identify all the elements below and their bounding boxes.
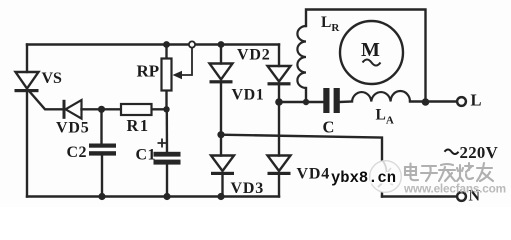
- svg-text:VD5: VD5: [56, 120, 90, 137]
- wire motor frame: [306, 10, 426, 103]
- terminal N: [457, 192, 466, 201]
- wire C2 top lead: [100, 109, 102, 143]
- svg-text:VD3: VD3: [231, 180, 265, 197]
- thyristor VS: [15, 72, 39, 92]
- watermark char zi: [421, 166, 437, 181]
- svg-text:C: C: [323, 118, 335, 137]
- potentiometer RP: [162, 48, 193, 91]
- label motor tilde: [363, 60, 381, 66]
- capacitor C2: [89, 144, 116, 156]
- wire VD5 to node A: [82, 108, 122, 110]
- watermark char shao: [457, 163, 473, 181]
- svg-text:LA: LA: [376, 107, 394, 127]
- diode VD2: [268, 66, 291, 85]
- svg-text:VS: VS: [42, 70, 63, 87]
- wire AC node to N side: [221, 135, 382, 197]
- wire top rail: [27, 43, 279, 45]
- svg-text:RP: RP: [137, 62, 160, 81]
- wire left rail upper: [26, 45, 28, 73]
- wire bottom rail: [27, 195, 279, 197]
- svg-text:www.elecfans.com: www.elecfans.com: [403, 181, 506, 195]
- wire RP bottom lead: [165, 91, 167, 110]
- wire bridge right column lower: [278, 175, 280, 197]
- svg-text:ybx8.cn: ybx8.cn: [331, 169, 396, 187]
- wire C1 top lead: [166, 109, 169, 151]
- wire RP top lead: [165, 45, 167, 59]
- wire bridge left column upper: [220, 45, 222, 64]
- svg-text:VD4: VD4: [297, 166, 331, 183]
- diode VD3: [211, 156, 234, 176]
- node wiper tap circle: [189, 41, 195, 47]
- wire bridge left column lower: [221, 175, 223, 197]
- capacitor C1: [154, 139, 181, 165]
- wire AC node to C: [279, 101, 323, 103]
- wire bridge right column middle: [278, 85, 280, 156]
- wire bridge right column upper: [278, 45, 280, 67]
- watermark char you: [477, 163, 493, 181]
- wire C2 bottom lead: [101, 156, 103, 197]
- terminal L: [457, 97, 466, 106]
- wire R1 right lead: [152, 108, 167, 110]
- svg-text:C2: C2: [67, 144, 88, 161]
- svg-text:220V: 220V: [460, 143, 499, 162]
- wire gate of VS: [30, 92, 64, 110]
- wire N lead: [382, 195, 458, 197]
- svg-text:VD2: VD2: [237, 47, 271, 64]
- svg-text:C1: C1: [136, 147, 157, 164]
- label ~220V: [445, 150, 459, 155]
- svg-text:M: M: [361, 39, 380, 61]
- wire left rail lower: [26, 92, 28, 197]
- wire LA to L terminal: [410, 100, 457, 102]
- wire bridge left column middle: [220, 83, 222, 156]
- watermark char fa: [439, 164, 455, 181]
- motor U1: [340, 21, 403, 84]
- resistor R1: [121, 104, 152, 115]
- inductor LA: [352, 91, 410, 102]
- inductor LR: [297, 26, 306, 88]
- svg-text:VD1: VD1: [232, 87, 265, 104]
- watermark char dian: [405, 164, 418, 181]
- diode VD1: [210, 64, 233, 84]
- capacitor C: [323, 88, 340, 113]
- diode VD5: [63, 100, 82, 119]
- svg-text:L: L: [471, 90, 482, 109]
- watermark logo circle: [370, 161, 402, 193]
- wire C1 bottom lead: [166, 165, 168, 197]
- svg-text:LR: LR: [321, 14, 340, 34]
- diode VD4: [268, 156, 291, 176]
- wire C to LA: [340, 100, 352, 103]
- node junction dots: [98, 41, 429, 200]
- svg-text:R1: R1: [127, 116, 150, 135]
- wire LR bottom lead: [305, 88, 307, 102]
